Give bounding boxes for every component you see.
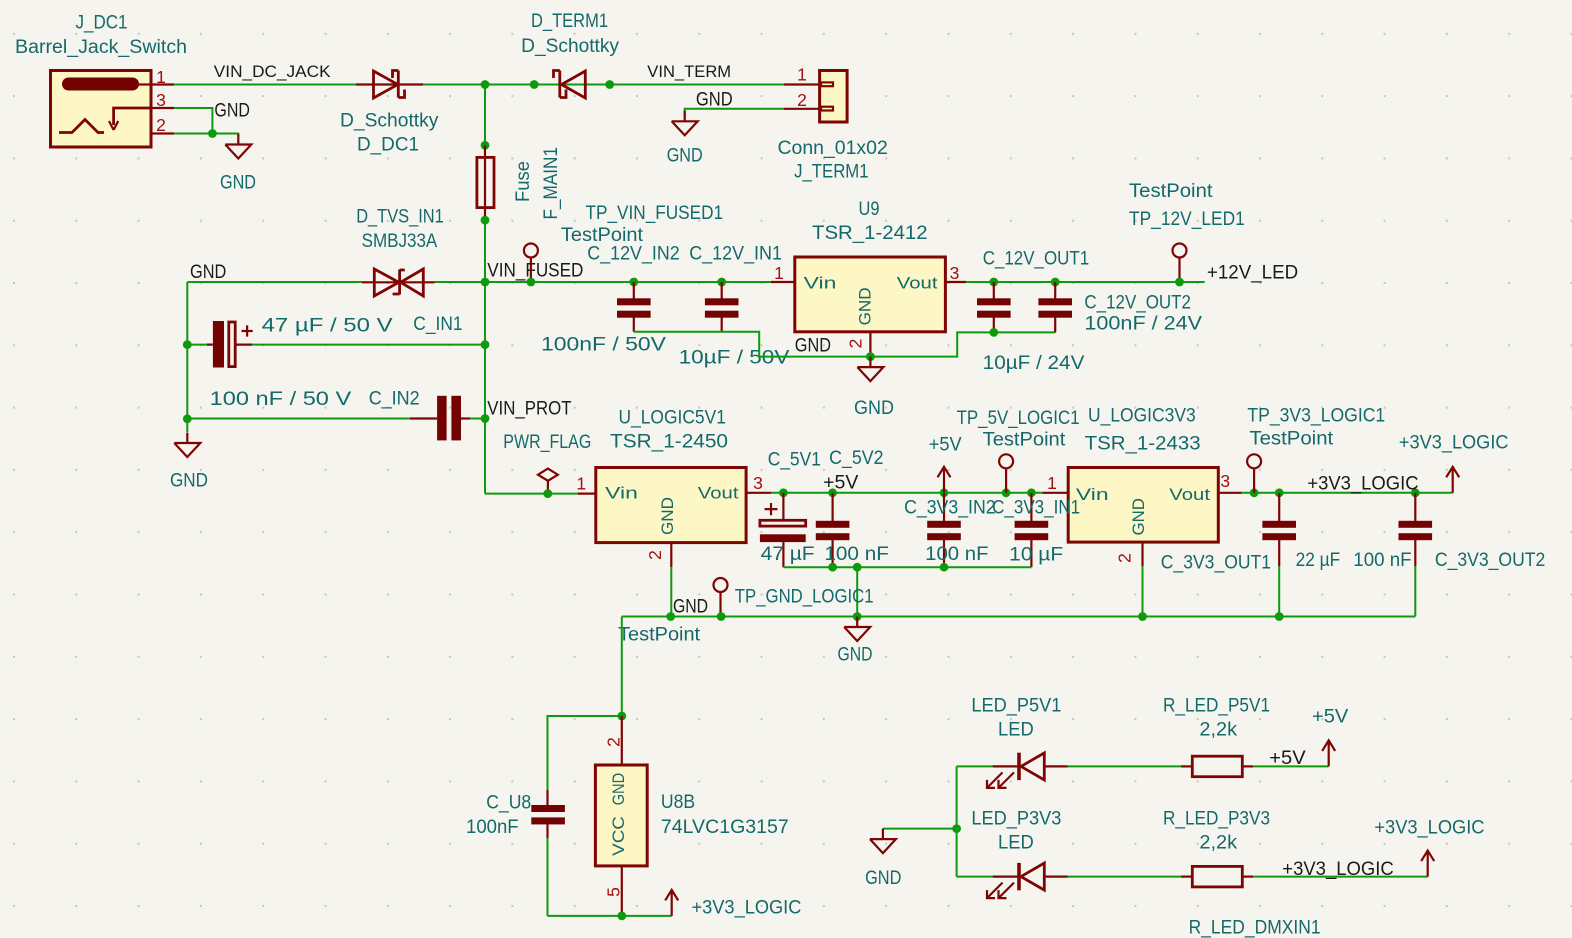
connector J_DC1 barrel jack [51,71,152,148]
svg-text:10µF / 50V: 10µF / 50V [679,348,790,369]
svg-text:2: 2 [645,550,665,560]
junction at VIN node [481,80,490,89]
pin 1 of J_DC1 [151,83,174,85]
wire VIN_FUSED down to VIN_PROT [484,282,486,494]
svg-text:GND: GND [856,287,875,325]
svg-text:U8B: U8B [661,792,695,813]
svg-text:10µF / 24V: 10µF / 24V [983,353,1085,374]
svg-text:VCC: VCC [609,816,628,856]
capacitor C_3V3_OUT1 [1262,493,1296,617]
capacitor C_12V_IN2 [617,282,651,332]
svg-text:TP_5V_LOGIC1: TP_5V_LOGIC1 [957,408,1080,429]
junction at D_TERM1 cathode side [605,80,614,89]
pin 3 of U9 [945,281,966,283]
wire +12V_LED rail [966,281,1205,283]
svg-text:C_3V3_OUT1: C_3V3_OUT1 [1161,553,1271,574]
wire GND rail to TVS [187,281,362,283]
svg-text:LED: LED [998,720,1034,741]
junction U8B pin5 [617,912,626,921]
svg-text:2,2k: 2,2k [1199,720,1237,741]
LED LED_P5V1 [987,753,1068,788]
ground symbol left rail [174,433,200,458]
svg-text:VIN_TERM: VIN_TERM [647,63,731,81]
junction U8B VCC node [617,712,626,721]
svg-text:+5V: +5V [1269,748,1306,769]
svg-text:1: 1 [797,65,807,85]
svg-text:2,2k: 2,2k [1199,833,1237,854]
svg-text:Vout: Vout [698,484,739,503]
junction PWR_FLAG [543,489,552,498]
wire +5V rail [771,492,1043,494]
pin 3 of U_LOGIC3V3 [1218,492,1241,494]
junction C_IN1 left [183,340,192,349]
power symbol +5V at LED [1322,740,1335,766]
svg-text:GND: GND [170,471,208,492]
junction C_5V2 top [828,488,837,497]
svg-text:D_TVS_IN1: D_TVS_IN1 [356,207,444,228]
capacitor C_IN1 47uF polarized [187,321,485,368]
ground symbol below U9 [857,357,883,382]
svg-text:VIN_FUSED: VIN_FUSED [487,261,583,282]
svg-text:2: 2 [797,90,807,110]
svg-text:+5V: +5V [1312,707,1349,728]
svg-text:1: 1 [576,474,586,494]
svg-text:+5V: +5V [823,473,859,494]
capacitor C_3V3_IN2 [927,493,961,567]
svg-text:D_Schottky: D_Schottky [521,36,619,57]
IC U8B 74LVC1G3157 [595,765,647,866]
junction TP_5V_LOGIC1 [1002,488,1011,497]
wire R_LED_P5V1 to +5V [1253,765,1328,767]
junction C_12V_IN2 top [629,278,638,287]
svg-text:Vout: Vout [1169,485,1210,504]
svg-text:Vin: Vin [804,274,837,293]
svg-text:Vin: Vin [605,484,638,503]
test point TP_VIN_FUSED1 [524,244,538,283]
junction VIN_FUSED node [481,278,490,287]
svg-text:R_LED_P5V1: R_LED_P5V1 [1163,696,1270,717]
wire LED_P3V3 to R_LED_P3V3 [1068,876,1184,878]
wire LED branch vertical [956,766,958,876]
test point TP_GND_LOGIC1 [714,578,728,617]
svg-text:U_LOGIC5V1: U_LOGIC5V1 [619,408,726,429]
svg-text:Conn_01x02: Conn_01x02 [778,138,888,159]
svg-text:GND: GND [854,398,894,419]
junction at jack ground [208,129,217,138]
svg-text:1: 1 [1047,473,1057,493]
svg-text:100 nF: 100 nF [925,544,988,565]
left GND vertical rail [186,282,188,432]
junction C_IN2 left [183,414,192,423]
svg-text:C_5V2: C_5V2 [829,448,883,469]
svg-text:+5V: +5V [929,435,962,456]
junction U_LOGIC5V1 pin2 on rail [666,612,675,621]
svg-text:3: 3 [950,263,960,283]
wire D_DC1 cathode to junction and D_TERM1 [423,84,784,86]
svg-text:+3V3_LOGIC: +3V3_LOGIC [1374,818,1484,839]
svg-text:D_Schottky: D_Schottky [340,111,439,132]
wire VIN_DC_JACK from jack pin 1 to D_DC1 [174,84,360,86]
svg-text:2: 2 [1115,553,1135,563]
svg-text:TP_VIN_FUSED1: TP_VIN_FUSED1 [586,203,724,224]
svg-text:TestPoint: TestPoint [618,625,701,646]
svg-text:GND: GND [696,90,733,111]
svg-text:+3V3_LOGIC: +3V3_LOGIC [1282,859,1393,880]
wire GND rail down to U8B [621,617,623,717]
pin 2 of U8B [621,716,623,765]
svg-text:47 µF: 47 µF [761,544,815,565]
pin 5 of U8B [621,866,623,916]
svg-text:C_12V_OUT1: C_12V_OUT1 [983,249,1089,270]
pin 2 of U_LOGIC3V3 [1141,542,1143,566]
svg-text:3: 3 [753,473,763,493]
svg-text:Fuse: Fuse [513,161,534,202]
svg-text:GND: GND [673,597,708,618]
svg-text:C_3V3_OUT2: C_3V3_OUT2 [1435,550,1545,571]
svg-text:C_IN1: C_IN1 [413,314,462,335]
svg-text:3: 3 [156,90,166,110]
svg-text:PWR_FLAG: PWR_FLAG [503,432,591,453]
svg-text:TSR_1-2412: TSR_1-2412 [812,223,928,244]
pin 2 of J_DC1 [151,132,174,134]
pin 2 of J_TERM1 [784,108,820,110]
wire to LED_P5V1 [957,765,994,767]
svg-text:100nF / 24V: 100nF / 24V [1084,314,1202,335]
svg-text:100nF / 50V: 100nF / 50V [541,335,666,356]
capacitor C_3V3_OUT2 [1399,493,1433,617]
svg-text:1: 1 [156,67,166,87]
wire logic caps bottom rail [783,566,1031,568]
svg-text:+12V_LED: +12V_LED [1207,263,1298,284]
wire VIN_PROT to U_LOGIC5V1 [485,493,578,495]
ground symbol LED section [870,829,896,854]
svg-text:TP_12V_LED1: TP_12V_LED1 [1129,209,1245,230]
junction C_12V_OUT2 top [1051,278,1060,287]
wire to LED_P3V3 [957,876,994,878]
TVS diode D_TVS_IN1 SMBJ33A [362,269,435,296]
svg-text:TestPoint: TestPoint [1129,181,1213,202]
svg-text:C_12V_IN2: C_12V_IN2 [587,244,679,265]
svg-text:2: 2 [846,339,866,349]
svg-text:GND: GND [220,172,256,193]
svg-text:2: 2 [156,115,166,135]
capacitor C_3V3_IN1 [1015,493,1049,567]
pin 1 of J_TERM1 [784,83,820,85]
junction C_12V_OUT1 top [989,278,998,287]
svg-text:TestPoint: TestPoint [983,430,1066,451]
wire R_LED_P3V3 to +3V3_LOGIC [1253,876,1427,878]
pin 2 of U_LOGIC5V1 [670,543,672,568]
svg-text:TP_3V3_LOGIC1: TP_3V3_LOGIC1 [1247,406,1385,427]
svg-text:SMBJ33A: SMBJ33A [362,231,438,252]
junction C_12V_OUT1 bottom [989,328,998,337]
svg-text:TP_GND_LOGIC1: TP_GND_LOGIC1 [735,587,874,608]
junction U_LOGIC3V3 pin2 on rail [1138,612,1147,621]
svg-text:1: 1 [774,263,784,283]
svg-text:D_TERM1: D_TERM1 [531,11,608,32]
svg-text:LED_P3V3: LED_P3V3 [971,809,1061,830]
svg-text:GND: GND [838,645,873,666]
wire LED ground [883,829,957,831]
svg-text:GND: GND [609,773,628,805]
svg-text:U9: U9 [859,199,880,220]
junction C_5V1 top [779,488,788,497]
svg-text:J_TERM1: J_TERM1 [794,162,869,183]
svg-text:GND: GND [865,868,901,889]
wire LED_P5V1 to R_LED_P5V1 [1068,765,1184,767]
wire VIN_FUSED to U9 Vin [485,281,771,283]
capacitor C_5V2 100nF [816,493,850,567]
svg-text:F_MAIN1: F_MAIN1 [541,147,562,220]
svg-text:TestPoint: TestPoint [1249,429,1334,450]
svg-text:C_3V3_IN2: C_3V3_IN2 [904,498,996,519]
test point TP_12V_LED1 [1173,244,1187,283]
svg-text:C_5V1: C_5V1 [768,450,821,471]
svg-text:100nF: 100nF [466,817,519,838]
junction at D_TERM1 anode side [530,80,539,89]
wire jack pin 2 to ground [174,134,238,135]
wire drop to GND rail [856,567,858,616]
pin 2 of U9 [869,332,871,357]
svg-text:GND: GND [667,146,703,167]
resistor R_LED_P3V3 2,2k [1181,866,1253,887]
svg-text:+3V3_LOGIC: +3V3_LOGIC [1307,474,1418,495]
wire jack pin 3 to ground [174,108,212,134]
svg-text:GND: GND [190,262,226,283]
svg-text:VIN_PROT: VIN_PROT [487,399,572,420]
junction LED ground [952,824,961,833]
svg-text:74LVC1G3157: 74LVC1G3157 [661,817,789,838]
ground symbol below J_TERM1 [672,111,698,136]
regulator U_LOGIC5V1 TSR_1-2450 [596,468,746,543]
svg-text:LED: LED [998,833,1034,854]
wire J_TERM1 pin 2 to ground [685,109,784,118]
pin 3 of U_LOGIC5V1 [746,492,771,494]
svg-text:R_LED_P3V3: R_LED_P3V3 [1163,809,1270,830]
junction C_12V_IN1 top [717,278,726,287]
power flag PWR_FLAG [538,469,558,494]
wire input caps ground to U9 GND [634,332,1055,357]
power symbol +3V3_LOGIC [1446,467,1459,493]
svg-text:Barrel_Jack_Switch: Barrel_Jack_Switch [15,37,187,58]
wire TVS to VIN_FUSED junction [435,281,485,283]
capacitor C_12V_OUT1 [977,282,1011,332]
junction U9 GND [866,352,875,361]
junction +5V symbol and C_3V3_IN2 [940,488,949,497]
junction below fuse [481,216,490,225]
ground symbol below jack [225,134,251,159]
svg-text:Vout: Vout [897,274,938,293]
svg-text:TSR_1-2450: TSR_1-2450 [610,432,728,453]
svg-text:+3V3_LOGIC: +3V3_LOGIC [1399,433,1509,454]
svg-text:J_DC1: J_DC1 [76,13,128,34]
svg-text:22 µF: 22 µF [1296,550,1341,571]
svg-text:LED_P5V1: LED_P5V1 [971,696,1061,717]
junction GND symbol on rail [853,612,862,621]
junction C_5V2 bottom [828,563,837,572]
junction C_3V3_IN1 top [1027,488,1036,497]
svg-text:100 nF / 50 V: 100 nF / 50 V [210,389,352,410]
junction rail drop [853,563,862,572]
svg-text:R_LED_DMXIN1: R_LED_DMXIN1 [1189,918,1321,938]
power symbol +3V3_LOGIC at LED [1421,851,1434,877]
svg-text:VIN_DC_JACK: VIN_DC_JACK [214,63,331,81]
diode D_DC1 D_Schottky [356,71,423,99]
svg-text:100 nF: 100 nF [1353,550,1411,571]
wire fuse to VIN_FUSED rail [484,220,486,282]
capacitor C_12V_OUT2 [1038,282,1072,332]
wire VIN node down to fuse [484,85,486,146]
svg-text:10 µF: 10 µF [1009,545,1063,566]
svg-text:C_12V_IN1: C_12V_IN1 [689,244,782,265]
capacitor C_12V_IN1 [705,282,739,332]
LED LED_P3V3 [987,863,1068,898]
svg-text:100 nF: 100 nF [824,544,889,565]
resistor R_LED_P5V1 2,2k [1181,756,1253,777]
svg-text:TSR_1-2433: TSR_1-2433 [1085,434,1201,455]
junction C_3V3_IN2 bottom [940,563,949,572]
svg-text:47 µF / 50 V: 47 µF / 50 V [262,316,393,337]
connector J_TERM1 [820,71,848,123]
svg-text:+3V3_LOGIC: +3V3_LOGIC [692,898,802,919]
junction C_IN1 right [481,340,490,349]
power symbol +5V [938,467,951,493]
svg-text:C_U8: C_U8 [486,793,531,814]
svg-text:GND: GND [214,101,250,122]
svg-text:2: 2 [604,737,624,747]
wire U8B bypass branch [548,716,622,793]
ground symbol logic rail [844,617,870,642]
svg-text:3: 3 [1220,471,1230,491]
svg-text:GND: GND [658,497,677,535]
power symbol +3V3_LOGIC at U8B [665,890,678,916]
svg-text:Vin: Vin [1076,485,1109,504]
junction above fuse [481,141,490,150]
junction TP_3V3_LOGIC1 [1250,488,1259,497]
svg-text:C_12V_OUT2: C_12V_OUT2 [1084,293,1191,314]
capacitor C_IN2 100nF [187,396,485,441]
svg-text:U_LOGIC3V3: U_LOGIC3V3 [1088,406,1196,427]
wire +3V3_LOGIC rail [1242,492,1453,494]
capacitor C_5V1 47uF polarized [760,493,806,567]
junction C_IN2 right VIN_PROT node [481,414,490,423]
svg-text:D_DC1: D_DC1 [357,135,419,156]
pin 3 of J_DC1 [151,107,174,109]
svg-text:C_IN2: C_IN2 [369,389,420,410]
wire U8B pin5 rail [548,915,672,917]
svg-text:GND: GND [1129,498,1148,536]
junction C_3V3_OUT1 top [1275,488,1284,497]
test point TP_3V3_LOGIC1 [1247,454,1261,493]
capacitor C_U8 100nF [531,790,565,916]
svg-text:C_3V3_IN1: C_3V3_IN1 [992,498,1080,519]
junction C_3V3_OUT2 top [1411,488,1420,497]
test point TP_5V_LOGIC1 [999,454,1013,493]
junction C_3V3_OUT1 bottom [1275,612,1284,621]
svg-text:GND: GND [795,336,831,357]
fuse F_MAIN1 [477,145,494,220]
regulator U_LOGIC3V3 TSR_1-2433 [1068,468,1218,543]
regulator U9 TSR_1-2412 [795,257,946,332]
GND logic rail [622,616,1416,618]
diode D_TERM1 D_Schottky [554,71,586,99]
svg-text:5: 5 [604,887,624,897]
